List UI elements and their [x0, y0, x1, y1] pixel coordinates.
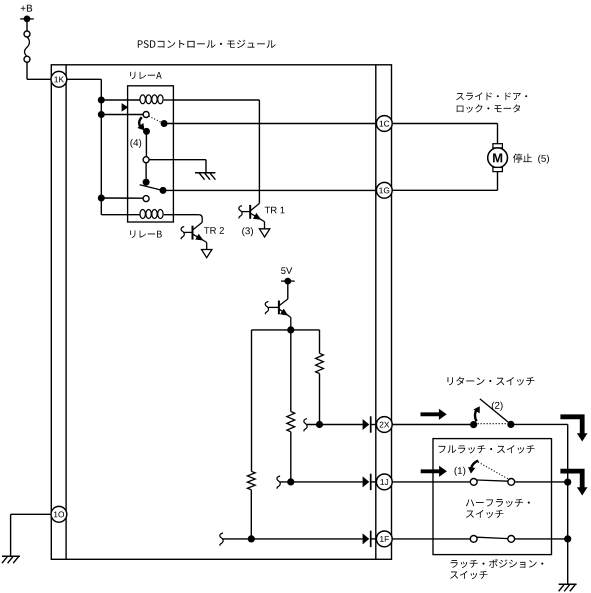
motor M [488, 148, 508, 168]
connector terminal 2X [376, 417, 392, 433]
node 1J row junction [287, 478, 294, 485]
label full latch switch (フルラッチ・スイッチ) [438, 445, 534, 453]
node relay A coil feed [98, 97, 105, 104]
wire feed to relay A common [101, 114, 143, 116]
wire 1F row [223, 538, 363, 540]
wire fusible link to 1K [27, 62, 52, 79]
motor M brush cap top [493, 144, 503, 148]
wire break squiggle 1J row [277, 476, 280, 489]
resistor R1 (right branch) [316, 353, 324, 373]
wire Q3 emitter to divider node [289, 316, 291, 330]
wire D3 to 1F [371, 538, 377, 540]
label +B [21, 5, 33, 12]
wire 1F to half latch switch [392, 538, 470, 540]
label latch position switch line2 (スイッチ) [450, 571, 487, 579]
label (5) [538, 155, 549, 164]
wire relay A coil to TR1 collector [173, 100, 259, 203]
transistor TR2 base squiggle [181, 227, 184, 240]
relay A NO contact node [143, 128, 150, 135]
label half latch switch line2 (スイッチ) [466, 510, 503, 518]
transistor Q3 base squiggle [265, 302, 268, 315]
wire 1J to full latch switch [392, 481, 470, 483]
label motor stop (停止) [513, 154, 532, 163]
relay mid pivot contact [143, 157, 149, 163]
connector terminal 1K [51, 71, 67, 87]
wire 5V to transistor collector [287, 281, 289, 299]
wire relay B NC to 1G [163, 189, 377, 191]
relay B coil [140, 210, 173, 219]
wire R2 to 1J row [290, 432, 292, 482]
wire left branch down [251, 330, 253, 471]
transistor TR1 [242, 203, 262, 220]
wire D2 to 1J [371, 481, 377, 483]
label (3) [242, 227, 253, 236]
signal arrow at 1J output [421, 466, 447, 477]
label slide door lock motor line2 (ロック・モータ) [457, 104, 521, 112]
node 1F row junction [248, 535, 255, 542]
wire 2X to return switch [392, 424, 474, 426]
node 2X row junction [316, 421, 323, 428]
direction arrow into relay [122, 103, 129, 112]
ground TR2 (open triangle) [202, 250, 212, 258]
label TR 2 [204, 227, 224, 234]
wire right branch down [319, 330, 321, 353]
relay A/B box [128, 86, 174, 222]
label PSD control module (PSDコントロール・モジュール) [138, 40, 276, 48]
wire full latch to rail [515, 481, 568, 483]
wire 1J row [280, 481, 363, 483]
node rail full latch [564, 479, 571, 486]
wire mid branch down [290, 330, 292, 412]
label latch position switch line1 (ラッチ・ポジション・) [451, 559, 544, 568]
wire divider top rail [252, 329, 320, 331]
diode D3 [363, 531, 371, 547]
ground (relay common) [195, 173, 215, 180]
fusible link [24, 31, 30, 62]
label 5V [281, 267, 292, 274]
actuation arrow (4) [137, 117, 144, 130]
5V terminal [281, 278, 295, 285]
relay A coil [140, 95, 173, 104]
wire break squiggle 2X row [304, 419, 307, 432]
label slide door lock motor line1 (スライド・ドア・) [456, 92, 527, 100]
relay B upper contact node [143, 179, 150, 186]
wire relay A NC to 1C [164, 123, 377, 125]
wire switch common rail [567, 424, 569, 584]
wire feed to relay B NO [101, 197, 143, 199]
relay A NC contact node [161, 120, 168, 127]
diode D1 [363, 416, 371, 432]
flow elbow arrow upper [560, 417, 587, 442]
wire relay A NO to relay common mid [145, 131, 147, 156]
transistor TR1 base squiggle [239, 206, 242, 219]
PSD control module box outline [51, 65, 391, 560]
wire relay mid to relay B contact [145, 163, 147, 179]
node divider top [287, 326, 294, 333]
connector terminal 1O [51, 506, 67, 522]
return switch [470, 399, 515, 428]
wire relay mid to ground [149, 160, 206, 173]
full latch switch [470, 462, 514, 485]
connector terminal 1C [376, 116, 392, 132]
relay B NO contact [143, 196, 149, 202]
wire motor to 1G [392, 172, 497, 191]
transistor Q3 (5V supply) [268, 299, 289, 316]
label (4) [130, 139, 141, 148]
label return switch (リターン・スイッチ) [448, 377, 535, 386]
transistor TR2 [184, 222, 204, 241]
actuation arrow (1) [468, 461, 478, 474]
wire R1 to 2X row [319, 374, 321, 425]
connector terminal 1J [376, 474, 392, 490]
wire 2X row [307, 424, 363, 426]
resistor R2 (middle branch) [287, 412, 295, 432]
label (2) [492, 402, 503, 411]
wire break squiggle 1F row [220, 533, 223, 546]
node rail half latch [564, 535, 571, 542]
wire 1C to motor [392, 124, 497, 144]
wire D1 to 2X [371, 424, 377, 426]
signal arrow at 2X output [421, 409, 447, 420]
wire half latch to rail [515, 538, 568, 540]
connector terminal 1F [376, 531, 392, 547]
diode D2 [363, 474, 371, 490]
relay B NC contact node [160, 187, 167, 194]
label TR 1 [265, 207, 285, 214]
+B terminal [20, 16, 34, 23]
wire TR2 emitter to ground [205, 241, 207, 249]
relay A movable blade (shown position, dotted) [149, 116, 162, 123]
relay B movable blade [140, 185, 163, 191]
wire feed to relay B coil [101, 214, 139, 216]
connector terminal 1G [376, 182, 392, 198]
actuation arrow (2) [473, 406, 479, 421]
wire 1K feed rail [66, 79, 101, 214]
motor M brush cap bottom [493, 167, 503, 171]
resistor R3 (left branch) [247, 471, 255, 490]
wire R3 to 1F row [250, 490, 252, 539]
flow elbow arrow lower [560, 471, 587, 495]
ground (switch rail) [559, 584, 577, 591]
label (1) [455, 467, 466, 476]
wire relay B coil to TR2 collector [173, 215, 202, 223]
wire return switch to rail [511, 423, 568, 425]
half latch switch [470, 536, 514, 543]
node relay B contact feed [98, 195, 105, 202]
label relay A (リレーA) [130, 72, 161, 79]
wire 1O to ground [11, 514, 51, 556]
wire +B down [26, 19, 28, 31]
ground TR1 (open triangle) [259, 229, 269, 237]
relay A common pivot contact [143, 112, 149, 118]
ground (battery return) [2, 556, 20, 563]
wire feed to relay A coil [101, 99, 139, 101]
label relay B (リレーB) [130, 230, 162, 237]
latch position switch box [433, 439, 552, 555]
label half latch switch line1 (ハーフラッチ・) [466, 499, 530, 507]
node relay A contact feed [98, 111, 105, 118]
wire TR1 emitter to ground [262, 220, 264, 228]
